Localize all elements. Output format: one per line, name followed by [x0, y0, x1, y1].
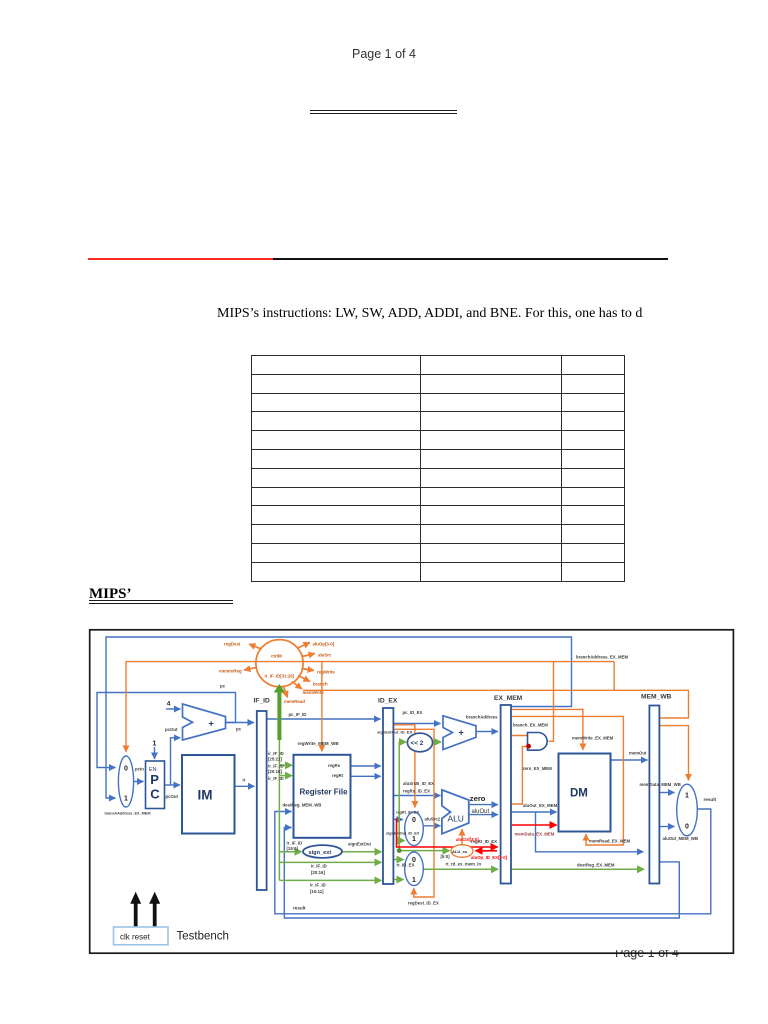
svg-text:ir_IF_ID: ir_IF_ID: [268, 764, 284, 769]
svg-text:<< 2: << 2: [411, 740, 424, 747]
svg-text:memData_MEM_WB: memData_MEM_WB: [640, 782, 681, 787]
svg-text:IM: IM: [198, 788, 213, 803]
svg-text:result: result: [704, 797, 717, 802]
svg-text:regRt_ID_EX: regRt_ID_EX: [396, 811, 419, 815]
svg-text:0: 0: [685, 824, 689, 831]
svg-text:ALU_cu: ALU_cu: [452, 849, 468, 854]
svg-text:aluOut_EX_MEM: aluOut_EX_MEM: [523, 803, 558, 808]
svg-text:ir_IF_ID[31:26]: ir_IF_ID[31:26]: [265, 674, 295, 679]
svg-text:regRs_ID_EX: regRs_ID_EX: [403, 789, 430, 794]
svg-text:P: P: [150, 772, 159, 787]
svg-text:[25:21]: [25:21]: [268, 757, 282, 762]
svg-text:aluOp[3-0]: aluOp[3-0]: [313, 642, 335, 647]
svg-text:sign_ext: sign_ext: [309, 850, 332, 856]
svg-text:memRead_EX_MEM: memRead_EX_MEM: [589, 839, 630, 844]
svg-text:memData_EX_MEM: memData_EX_MEM: [515, 832, 555, 837]
svg-text:zero: zero: [470, 794, 486, 803]
svg-text:pc: pc: [220, 684, 226, 689]
svg-text:1: 1: [412, 877, 416, 884]
svg-text:signExtOut_ID_EX: signExtOut_ID_EX: [377, 730, 412, 735]
svg-text:regRt: regRt: [332, 773, 344, 778]
svg-text:ir_IF_ID: ir_IF_ID: [287, 841, 303, 846]
svg-text:1: 1: [685, 793, 689, 800]
svg-text:[15:11]: [15:11]: [310, 889, 324, 894]
svg-text:branchAddress_EX_MEM: branchAddress_EX_MEM: [105, 812, 151, 816]
svg-text:pc: pc: [236, 727, 242, 732]
svg-text:+: +: [459, 728, 464, 738]
svg-text:ctrlM: ctrlM: [271, 654, 282, 659]
svg-text:signExtOut: signExtOut: [348, 842, 371, 847]
svg-text:rt_ID_EX: rt_ID_EX: [397, 862, 415, 867]
svg-text:destReg_MEM_WB: destReg_MEM_WB: [283, 803, 322, 808]
svg-text:ir: ir: [243, 778, 246, 783]
svg-text:ir_IF_ID: ir_IF_ID: [310, 883, 326, 888]
svg-text:[20:16]: [20:16]: [311, 870, 325, 875]
svg-text:branch: branch: [313, 682, 328, 687]
svg-text:aluOp_ID_EX[3-0]: aluOp_ID_EX[3-0]: [471, 855, 508, 860]
svg-text:clk reset: clk reset: [120, 933, 151, 942]
svg-text:Register File: Register File: [300, 787, 349, 796]
svg-text:branchAddress_EX_MEM: branchAddress_EX_MEM: [576, 655, 628, 660]
svg-text:rt_rd_ex_mem_in: rt_rd_ex_mem_in: [446, 861, 482, 866]
svg-text:aluSrc: aluSrc: [318, 653, 332, 658]
svg-text:memRead: memRead: [284, 699, 305, 704]
svg-text:aluSrcB_ID_EX: aluSrcB_ID_EX: [403, 781, 434, 786]
svg-text:C: C: [150, 787, 160, 802]
svg-text:4: 4: [167, 701, 171, 708]
svg-text:1: 1: [153, 741, 157, 748]
svg-text:ir_IF_ID: ir_IF_ID: [268, 776, 284, 781]
svg-text:memWrite_EX_MEM: memWrite_EX_MEM: [572, 736, 614, 741]
svg-text:memOut: memOut: [629, 751, 647, 756]
svg-text:branch_EX_MEM: branch_EX_MEM: [513, 723, 548, 728]
svg-text:[5:0]: [5:0]: [441, 854, 451, 859]
svg-text:result: result: [293, 906, 306, 911]
svg-text:aluOut_MEM_WB: aluOut_MEM_WB: [663, 836, 699, 841]
svg-text:0: 0: [412, 817, 416, 824]
svg-text:IF_ID: IF_ID: [254, 698, 271, 705]
svg-text:pcOut: pcOut: [166, 794, 179, 799]
svg-text:ir_IF_ID: ir_IF_ID: [268, 751, 284, 756]
svg-text:regDest: regDest: [224, 642, 241, 647]
svg-text:zero_EX_MEM: zero_EX_MEM: [523, 766, 553, 771]
svg-text:memWrite: memWrite: [303, 690, 325, 695]
svg-text:branchAddress: branchAddress: [466, 715, 498, 720]
svg-text:MEM_WB: MEM_WB: [641, 694, 672, 701]
svg-text:regWrite: regWrite: [317, 670, 335, 675]
svg-text:1: 1: [124, 796, 128, 803]
svg-text:aluSrc2: aluSrc2: [425, 817, 441, 822]
svg-text:signExtOut_ID_EX: signExtOut_ID_EX: [386, 832, 420, 836]
svg-text:[20:16]: [20:16]: [268, 769, 282, 774]
svg-text:pcIn: pcIn: [135, 767, 144, 772]
svg-text:1: 1: [412, 836, 416, 843]
svg-text:+: +: [209, 718, 214, 728]
svg-text:Testbench: Testbench: [177, 931, 229, 943]
svg-text:aluOut: aluOut: [472, 809, 490, 815]
svg-text:ID_EX: ID_EX: [378, 698, 398, 705]
svg-text:[15:0]: [15:0]: [287, 846, 299, 851]
svg-text:aluCtrl[3:0]: aluCtrl[3:0]: [456, 837, 479, 842]
svg-text:DM: DM: [570, 788, 588, 800]
svg-text:ir_IF_ID: ir_IF_ID: [311, 864, 327, 869]
svg-text:regRs: regRs: [328, 763, 341, 768]
svg-text:EX_MEM: EX_MEM: [494, 695, 523, 702]
svg-text:regDest_ID_EX: regDest_ID_EX: [408, 901, 439, 906]
svg-text:pc_IF_ID: pc_IF_ID: [289, 712, 307, 717]
svg-text:regWrite_MEM_WB: regWrite_MEM_WB: [298, 741, 340, 746]
svg-text:pcOut: pcOut: [165, 727, 178, 732]
svg-text:0: 0: [124, 766, 128, 773]
svg-text:ALU: ALU: [448, 814, 464, 824]
svg-text:memtoReg: memtoReg: [219, 669, 242, 674]
svg-text:destReg_EX_MEM: destReg_EX_MEM: [577, 863, 615, 868]
svg-text:pc_ID_EX: pc_ID_EX: [403, 710, 423, 715]
